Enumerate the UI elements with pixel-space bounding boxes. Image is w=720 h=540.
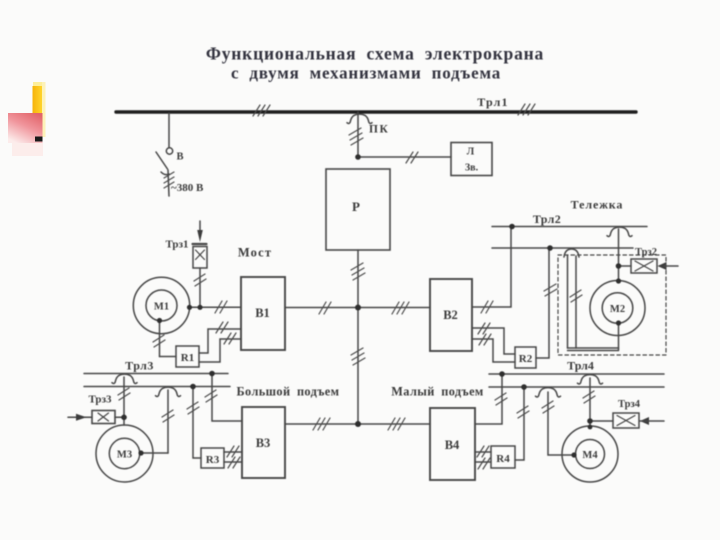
svg-text:Мост: Мост bbox=[238, 246, 272, 260]
svg-text:М2: М2 bbox=[610, 304, 625, 315]
svg-text:R4: R4 bbox=[496, 453, 510, 465]
svg-text:R2: R2 bbox=[519, 353, 533, 365]
svg-text:Большой подъем: Большой подъем bbox=[237, 385, 340, 399]
svg-text:М3: М3 bbox=[117, 450, 132, 461]
svg-text:Трз3: Трз3 bbox=[88, 394, 112, 406]
svg-text:В3: В3 bbox=[256, 436, 271, 450]
svg-text:Л: Л bbox=[467, 147, 475, 158]
svg-text:R1: R1 bbox=[181, 352, 194, 364]
svg-text:М4: М4 bbox=[582, 450, 598, 461]
svg-text:В1: В1 bbox=[255, 306, 270, 320]
svg-text:В2: В2 bbox=[443, 308, 458, 322]
svg-text:Трз1: Трз1 bbox=[165, 239, 188, 251]
svg-text:Трз2: Трз2 bbox=[635, 247, 657, 258]
svg-text:Тележка: Тележка bbox=[571, 198, 624, 212]
svg-text:Трл3: Трл3 bbox=[125, 359, 154, 373]
svg-text:~380 В: ~380 В bbox=[171, 182, 204, 194]
svg-text:М1: М1 bbox=[154, 302, 169, 313]
svg-text:R3: R3 bbox=[206, 454, 220, 466]
svg-text:Трл4: Трл4 bbox=[567, 359, 594, 373]
svg-text:Зв.: Зв. bbox=[465, 163, 479, 174]
svg-text:ПК: ПК bbox=[369, 124, 389, 136]
svg-text:Функциональная схема электрокр: Функциональная схема электрокрана bbox=[206, 44, 544, 64]
svg-text:В: В bbox=[177, 152, 184, 163]
svg-text:В4: В4 bbox=[445, 438, 460, 452]
svg-text:Малый подъем: Малый подъем bbox=[391, 385, 483, 399]
svg-text:Р: Р bbox=[352, 199, 360, 214]
svg-text:с двумя механизмами подъема: с двумя механизмами подъема bbox=[231, 64, 501, 83]
svg-text:Трл1: Трл1 bbox=[477, 95, 508, 109]
svg-text:Трз4: Трз4 bbox=[618, 399, 641, 410]
svg-text:Трл2: Трл2 bbox=[533, 212, 561, 226]
